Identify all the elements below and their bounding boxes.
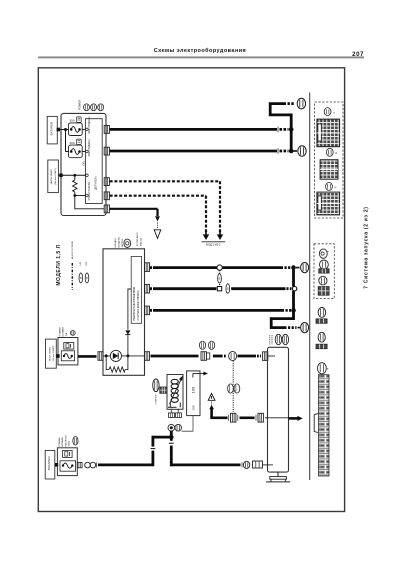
wire from inner block down — [128, 289, 131, 330]
starter internal wire and output arrow y418 — [268, 417, 289, 419]
riser B x171.3 relay terminal down — [170, 431, 173, 441]
ECU left pin connector y356 — [98, 352, 103, 361]
svg-text:ВНИЗ ПО СХЕМЕ: ВНИЗ ПО СХЕМЕ — [72, 240, 74, 259]
fuse F1 — [69, 123, 83, 136]
svg-text:Схемы электрооборудования: Схемы электрооборудования — [154, 47, 246, 54]
starter motor id ovals — [275, 334, 281, 344]
thick wire L1 (fuse1 feed) — [110, 128, 277, 131]
ECU right pin connector y356 — [145, 352, 150, 361]
junction dot below resistor — [73, 194, 76, 197]
svg-text:БАТАРЕЯ: БАТАРЕЯ — [47, 456, 51, 470]
svg-text:30А: 30А — [65, 332, 68, 336]
relay pin grid — [160, 387, 167, 393]
thick wire L5 (y417.8) — [210, 416, 227, 419]
svg-text:ВЫКЛ. ЗАЖИГ.: ВЫКЛ. ЗАЖИГ. — [48, 346, 51, 361]
svg-text:s: s — [333, 110, 335, 114]
ECU internal wire y356 — [103, 355, 145, 357]
thick wire L4 right — [238, 355, 257, 358]
connector pair P2 plug — [316, 344, 327, 349]
svg-text:КОНДИЦ.: КОНДИЦ. — [115, 237, 117, 247]
svg-text:ВЫКЛЮЧАТЕЛЬ БЛОКИРОВКИ: ВЫКЛЮЧАТЕЛЬ БЛОКИРОВКИ — [133, 286, 136, 320]
wire code tick L2 — [277, 148, 279, 154]
thick wire L1' right part — [223, 266, 283, 269]
inline connector on L5 — [227, 415, 229, 421]
ground stem under starter box — [277, 472, 279, 477]
dotted link between splices — [219, 270, 221, 285]
thick wire L2' right part — [231, 287, 285, 290]
dashed-dot model divider — [71, 263, 73, 290]
fusebox output pin y208 — [104, 205, 109, 213]
svg-text:30A: 30A — [70, 119, 75, 123]
svg-text:CVU: CVU — [82, 161, 85, 166]
connector view E2 label oval — [326, 148, 333, 156]
svg-text:МОД 2 ИЗ 2: МОД 2 ИЗ 2 — [206, 243, 221, 247]
thick jog up from L1 to top connector — [270, 104, 291, 130]
riser A x152.9 — [151, 451, 154, 467]
thick wire L4 mid — [213, 355, 223, 358]
svg-text:G/R: G/R — [86, 261, 88, 265]
wire ignition feed — [58, 174, 85, 176]
dashed drop B — [205, 196, 207, 233]
fusebox output pin y195 — [104, 192, 109, 200]
relay bottom pin grids — [169, 413, 175, 418]
junction dot feed to fuse 2 — [64, 128, 67, 131]
sheet reference underline — [202, 241, 226, 243]
thick wire L5 mid — [240, 416, 255, 419]
relay pin stubs — [170, 409, 172, 413]
link A to junction — [152, 436, 172, 439]
open ring junction L2' — [292, 287, 296, 291]
fuse F2 — [69, 145, 83, 158]
open continuation triangle C — [154, 230, 161, 239]
svg-text:100: 100 — [191, 386, 196, 393]
dashed drop A — [219, 181, 221, 232]
ECU top pin oval — [124, 239, 131, 247]
fusible link unit (bottom) box — [57, 448, 77, 476]
junction dot right of circled diode — [126, 354, 129, 357]
resistor (vertical) in fuse box — [74, 175, 76, 180]
svg-text:p: p — [335, 185, 337, 189]
svg-text:Б: Б — [227, 287, 229, 291]
svg-text:ЗАМОК ЗАЖИГ.: ЗАМОК ЗАЖИГ. — [50, 168, 53, 185]
svg-text:ЗАЖ (ПОДАЧА): ЗАЖ (ПОДАЧА) — [88, 116, 91, 133]
connector view E3 face — [317, 192, 340, 215]
variant oval between L1' L2' — [218, 274, 222, 284]
connector view E1 face — [317, 119, 340, 147]
starter motor id ticks — [269, 335, 271, 344]
connector view E2 face — [320, 160, 338, 180]
warning triangle note — [208, 393, 215, 400]
inner icon box — [64, 343, 74, 350]
continuation arrow onto wire L5 — [209, 405, 214, 410]
svg-text:L/B: L/B — [80, 262, 82, 266]
starter pin connector (y356) — [263, 352, 268, 361]
junction square battery to unit — [55, 463, 58, 467]
wire battery to fusebox — [57, 129, 68, 131]
ECU box (engine control module) — [103, 249, 145, 375]
starter pin connector (y417.8) — [255, 415, 257, 421]
ECU right pin connector y310.4 — [145, 306, 150, 315]
relay output arrow (top right) — [193, 373, 205, 375]
thin loop from right terminal to solenoid box — [182, 416, 194, 432]
arrow A (to sheet 2) — [217, 232, 223, 241]
thick wire L1' (y267.6) left part — [150, 266, 217, 269]
svg-text:e: e — [327, 366, 329, 370]
ECU right pin connector y288.7 — [145, 284, 150, 293]
relay right section box — [187, 371, 200, 416]
splice symbol S1 oval — [319, 249, 327, 258]
fusebox output pin y129 — [104, 126, 109, 134]
junction dot L2 — [289, 149, 294, 154]
inline connector pair on L6 — [241, 462, 243, 467]
diagram frame — [38, 68, 344, 512]
wire down and to third output — [75, 196, 104, 209]
fuse outputs into inner block — [82, 128, 85, 130]
vertical separator between schematic and connector column — [309, 93, 311, 481]
starter relay label oval — [153, 379, 159, 392]
junction dot left — [105, 354, 108, 357]
battery label box (top) — [47, 116, 57, 143]
dashed box of connector views (top) — [315, 102, 343, 218]
svg-text:ВОЗДУХА: ВОЗДУХА — [118, 237, 121, 248]
svg-text:ПЛАВКАЯ: ПЛАВКАЯ — [59, 326, 62, 336]
junction square at fusebox left edge — [59, 174, 62, 178]
stub into starter box y464.9 — [263, 464, 274, 466]
svg-text:СТАРТЕРА (БЛОК УПРАВЛ.): СТАРТЕРА (БЛОК УПРАВЛ.) — [137, 290, 140, 321]
svg-text:МАССА: МАССА — [140, 238, 143, 246]
splice ring on L1' — [217, 265, 222, 270]
inner fusible element — [61, 351, 74, 361]
output rings — [85, 462, 91, 468]
junction dot above resistor — [73, 174, 76, 177]
svg-text:Б: Б — [219, 277, 221, 281]
starter motor box — [268, 347, 289, 472]
arrow B (to sheet 2) — [203, 232, 209, 241]
junction dot L1' — [291, 265, 296, 270]
ECU inner description block — [131, 256, 141, 323]
svg-text:СВЕЧИ НАКАЛА: СВЕЧИ НАКАЛА — [88, 182, 91, 201]
thick wire L2 (fuse2 feed) — [110, 150, 277, 153]
dotted vertical branch x233.5 — [232, 361, 234, 412]
thick U-jog to page connector y327.6 — [271, 310, 293, 327]
splice symbol S4 plug — [318, 287, 329, 296]
relay coil box — [167, 375, 183, 410]
fusebox output pin y151 — [104, 147, 109, 155]
thick wire L2' (y288.7) left part — [150, 287, 216, 290]
splice square on L2' — [217, 287, 221, 291]
page connector oval (y327.6) — [301, 323, 309, 333]
svg-text:ПЛАВКАЯ: ПЛАВКАЯ — [58, 437, 61, 447]
circled diode D2 — [110, 350, 121, 361]
thick wire unit to ECU — [78, 355, 97, 358]
relay coil — [171, 379, 178, 384]
svg-text:100: 100 — [192, 405, 196, 410]
thick battery wire L6 left — [98, 463, 153, 466]
ignition switch label box — [48, 160, 59, 193]
fuse id oval 2 — [91, 104, 97, 111]
connector D oval — [318, 363, 327, 374]
starter internal stub y356 — [268, 355, 276, 357]
splice symbol S3 oval — [319, 276, 327, 285]
resistor R1 loop below — [106, 356, 109, 370]
relay bottom terminal oval left (battery side) — [168, 424, 175, 431]
svg-text:30A: 30A — [70, 141, 75, 145]
svg-text:ДВИГАТЕЛЬ: ДВИГАТЕЛЬ — [95, 176, 98, 190]
relay contact — [169, 403, 171, 408]
variant ovals on dotted branch — [228, 384, 234, 393]
junction square on unit left edge — [56, 354, 59, 358]
round inline connector on L4 — [229, 351, 237, 360]
svg-text:ЗАЖ (ПОДАЧА): ЗАЖ (ПОДАЧА) — [88, 139, 91, 156]
thick wire C (y208.8) — [110, 208, 158, 210]
thick riser x293.5 — [292, 268, 295, 287]
ECU right pin connector y267 — [145, 263, 150, 272]
header rule — [38, 56, 364, 58]
svg-text:ВСТАВКА: ВСТАВКА — [62, 327, 65, 337]
page connector oval (y151) — [294, 150, 298, 152]
thick drop C — [156, 209, 158, 216]
junction dot at relay feed — [169, 435, 174, 440]
variant oval on L2' — [226, 284, 230, 294]
thick wire L4 (y356) ECU to starter — [151, 355, 199, 358]
stub to oval L1' — [296, 267, 300, 269]
wire resistor to inner block — [75, 195, 86, 197]
svg-text:ВСТАВКА: ВСТАВКА — [61, 437, 64, 447]
connector pair P2 oval — [318, 332, 325, 342]
output grid of bottom unit — [77, 462, 82, 467]
svg-text:ТОКА: ТОКА — [68, 441, 71, 447]
fusible link unit (mid left) label box — [46, 339, 57, 368]
thick wire L3' (y310.4) — [150, 309, 284, 312]
connector id ovals above L4 — [199, 341, 205, 349]
fuse id oval 3 — [98, 104, 104, 111]
svg-text:(ON или START): (ON или START) — [54, 168, 57, 185]
bottom unit fusible element — [60, 461, 76, 471]
inner block pin circles — [86, 128, 89, 131]
battery label box (bottom) — [45, 450, 55, 479]
junction dot L1 — [289, 127, 294, 132]
splice symbol S2 oval+pins — [320, 260, 329, 269]
inline connector on L4 — [201, 352, 206, 361]
svg-text:Б: Б — [86, 276, 88, 280]
svg-text:7 Система запуска (2 из 2): 7 Система запуска (2 из 2) — [363, 206, 369, 288]
terminal strip bracket — [314, 414, 318, 433]
ground plate — [270, 477, 287, 480]
page connector oval (top, y103) — [297, 98, 305, 109]
svg-text:МОДЕЛИ 1,5 Л: МОДЕЛИ 1,5 Л — [56, 244, 62, 285]
thick riser joining L1-L2 — [290, 129, 293, 151]
dashed wire B (y195.7) — [110, 195, 206, 197]
svg-text:КУЗОВ АВТО: КУЗОВ АВТО — [136, 232, 139, 246]
dashed wire A (y181) — [110, 180, 220, 182]
svg-text:СТАРТЕР: СТАРТЕР — [155, 394, 158, 404]
svg-text:5: 5 — [335, 151, 337, 155]
page connector oval (y267.6) — [301, 263, 309, 273]
thick wire L6 right run — [170, 463, 241, 466]
svg-text:Б: Б — [80, 276, 82, 280]
fusible link unit box — [58, 338, 78, 365]
connector pair P1 oval — [318, 308, 326, 318]
svg-text:(ON или START): (ON или START) — [52, 345, 55, 361]
junction dot L3' — [291, 308, 296, 313]
bottom unit inner icon box — [63, 450, 73, 457]
note circle — [70, 331, 75, 336]
svg-text:ВЫСОКОГО: ВЫСОКОГО — [65, 435, 67, 447]
connector view E3 label oval — [326, 182, 333, 190]
wire branch down to fuse 2 — [65, 130, 67, 152]
junction square at battery output — [57, 128, 60, 132]
bottom unit note oval — [73, 437, 78, 446]
diode D1 on vertical wire — [125, 330, 130, 334]
svg-text:БАТАРЕЯ: БАТАРЕЯ — [50, 122, 54, 136]
small arrowhead on drop C — [155, 216, 160, 221]
relay actuator arrow — [170, 380, 182, 405]
fusebox output pin y181 — [104, 178, 109, 186]
fuse id oval 1 — [84, 104, 90, 111]
inner block of fuse box — [85, 119, 102, 204]
relay bottom terminal oval right — [175, 424, 182, 431]
fuse/relay box outline — [61, 113, 106, 215]
connector pair P1 plug — [316, 319, 327, 323]
terminal strip (wire code table) — [319, 375, 330, 476]
dashed box of splice symbols (middle) — [314, 244, 334, 299]
wire code tick L1 — [277, 127, 279, 133]
connector view E1 label oval — [324, 108, 331, 116]
svg-text:POWER: POWER — [78, 100, 82, 110]
